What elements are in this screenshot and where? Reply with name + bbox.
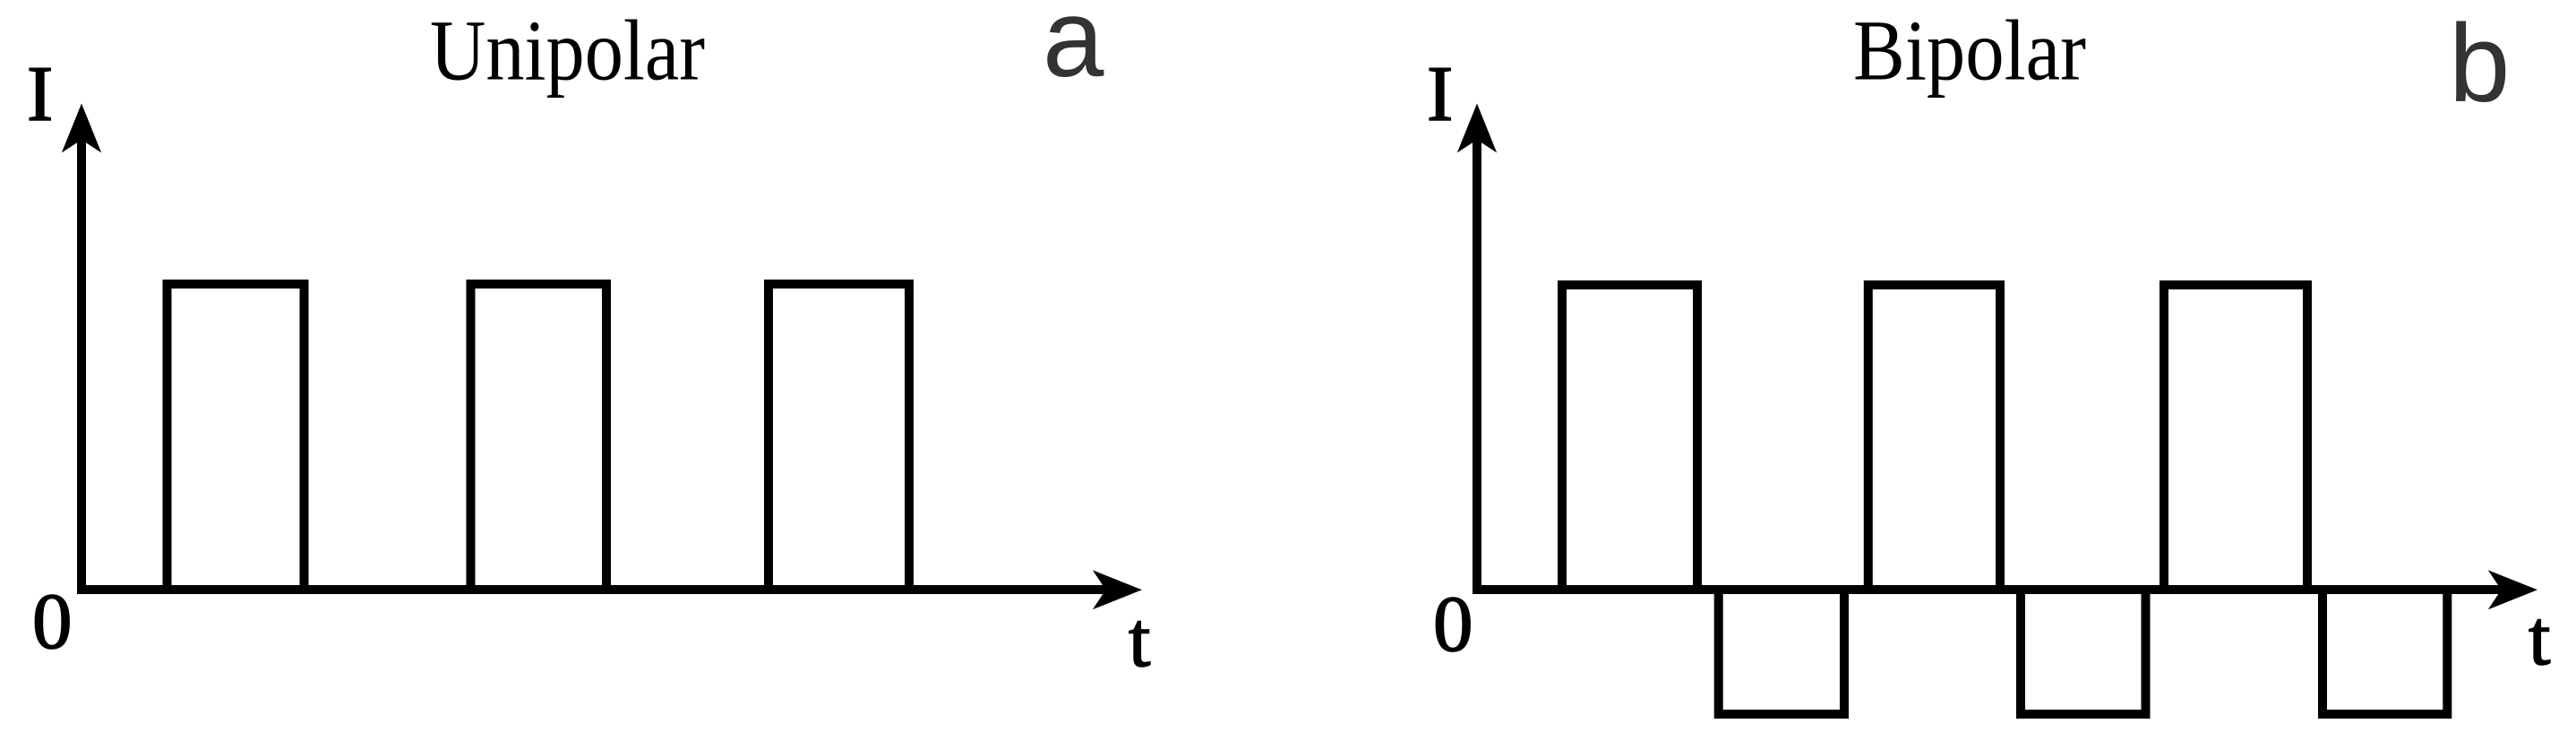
- unipolar pulse 2: [471, 284, 607, 594]
- svg-text:Bipolar: Bipolar: [1853, 2, 2086, 98]
- svg-text:Unipolar: Unipolar: [430, 2, 705, 98]
- left y-axis wire: [77, 134, 86, 594]
- svg-text:0: 0: [1433, 581, 1473, 668]
- left x-axis arrowhead: [1093, 570, 1142, 609]
- right x-axis arrowhead: [2488, 570, 2537, 609]
- svg-text:t: t: [2529, 595, 2550, 682]
- svg-text:b: b: [2449, 3, 2510, 125]
- unipolar pulse 1: [167, 284, 305, 594]
- left x-axis wire: [77, 585, 1111, 594]
- right y-axis wire: [1473, 134, 1481, 594]
- bipolar negative pulse 3: [2323, 585, 2447, 714]
- bipolar negative pulse 2: [2021, 585, 2146, 714]
- unipolar pulse 3: [769, 284, 909, 594]
- right x-axis wire: [1473, 585, 2506, 594]
- svg-text:0: 0: [32, 578, 73, 666]
- bipolar negative pulse 1: [1719, 585, 1844, 714]
- bipolar positive pulse 1: [1562, 285, 1697, 594]
- bipolar positive pulse 3: [2164, 285, 2307, 594]
- right y-axis arrowhead: [1457, 104, 1497, 153]
- svg-text:a: a: [1043, 0, 1104, 100]
- left y-axis arrowhead: [62, 104, 101, 153]
- svg-text:I: I: [27, 51, 53, 138]
- bipolar positive pulse 2: [1868, 285, 2000, 594]
- svg-text:t: t: [1129, 597, 1150, 684]
- svg-text:I: I: [1427, 51, 1453, 138]
